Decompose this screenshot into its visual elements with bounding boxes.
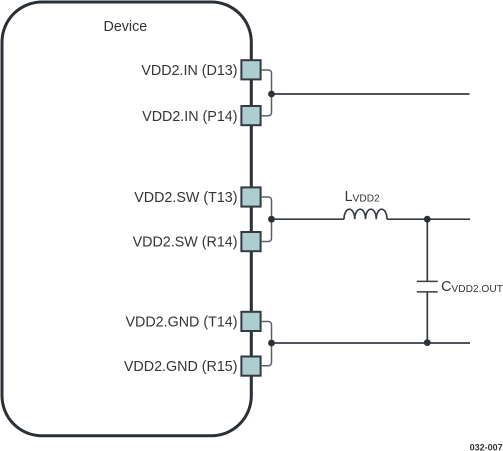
pin VDD2.SW (R14) [241,232,260,251]
svg-text:VDD2.IN (P14): VDD2.IN (P14) [142,109,237,125]
wire VDD2.SW pin connector [262,197,272,242]
node VDD2.SW junction [268,216,275,223]
wire VDD2.GND pin connector [262,322,272,366]
device outline [2,2,251,436]
svg-text:032-007: 032-007 [470,443,503,451]
svg-text:VDD2.IN (D13): VDD2.IN (D13) [141,63,237,79]
pin VDD2.GND (T14) [241,312,260,331]
wire VDD2.SW net to inductor [272,218,345,220]
pin VDD2.SW (T13) [241,187,260,206]
wire VDD2.IN pin connector [262,70,272,116]
pin VDD2.GND (R15) [241,357,260,376]
inductor LVDD2 [344,209,387,219]
node VDD2.GND junction [268,340,275,347]
svg-text:CVDD2.OUT: CVDD2.OUT [441,279,503,295]
svg-text:VDD2.SW (T13): VDD2.SW (T13) [134,190,237,206]
svg-text:LVDD2: LVDD2 [345,189,380,205]
wire inductor to output [387,218,470,220]
svg-text:VDD2.SW (R14): VDD2.SW (R14) [133,235,238,251]
node VDD2.IN junction [268,91,275,98]
wire VDD2.GND net [272,342,471,344]
pin VDD2.IN (P14) [241,106,260,125]
pin VDD2.IN (D13) [241,60,260,79]
node inductor-capacitor junction [424,216,431,223]
svg-text:Device: Device [104,19,148,35]
wire VDD2.IN net [272,93,470,95]
node capacitor-ground junction [424,339,431,346]
svg-text:VDD2.GND (R15): VDD2.GND (R15) [124,359,238,375]
svg-text:VDD2.GND (T14): VDD2.GND (T14) [125,315,237,331]
capacitor CVDD2.OUT [426,219,428,281]
